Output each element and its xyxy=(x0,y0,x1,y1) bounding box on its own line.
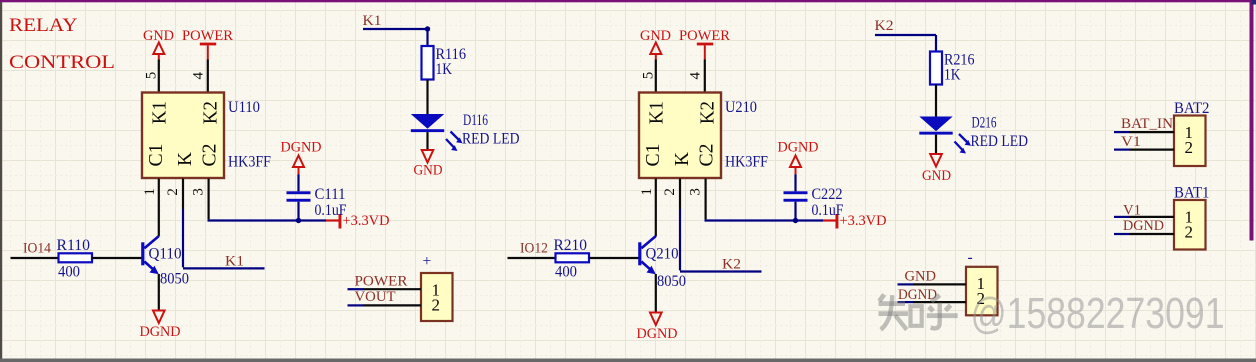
power port GND (below D116) xyxy=(414,150,443,179)
pin 4 wire xyxy=(704,60,706,93)
svg-text:R210: R210 xyxy=(554,237,588,254)
svg-text:Q210: Q210 xyxy=(646,246,679,263)
svg-text:GND: GND xyxy=(414,163,443,179)
svg-text:400: 400 xyxy=(555,264,577,281)
wire D116 to GND xyxy=(426,132,428,150)
watermark zhihu glyphs xyxy=(879,295,958,330)
svg-text:+3.3VD: +3.3VD xyxy=(840,213,887,229)
svg-text:DGND: DGND xyxy=(637,326,678,342)
power port GND (pin 5 of U110) xyxy=(143,28,174,60)
relay U110 body xyxy=(142,93,224,179)
power port DGND (below Q210) xyxy=(637,313,678,343)
svg-text:+: + xyxy=(423,253,432,270)
connector body xyxy=(421,273,453,321)
svg-text:4: 4 xyxy=(688,71,704,79)
power port GND (pin 5 of U210) xyxy=(640,28,671,60)
svg-text:GND: GND xyxy=(905,268,937,284)
svg-text:C1: C1 xyxy=(643,144,664,167)
svg-text:DGND: DGND xyxy=(140,324,181,340)
svg-text:K: K xyxy=(672,152,693,166)
wire R110 to Q110 base xyxy=(92,257,142,259)
power port DGND (below Q110) xyxy=(140,311,181,341)
pin 3 wire xyxy=(208,179,210,220)
svg-text:HK3FF: HK3FF xyxy=(725,154,768,171)
connector body xyxy=(1174,200,1206,250)
power port DGND (above C111) xyxy=(281,140,322,175)
svg-text:RED LED: RED LED xyxy=(971,133,1029,150)
svg-text:0.1uF: 0.1uF xyxy=(812,202,844,219)
wire D216 to GND xyxy=(935,135,937,154)
svg-text:C2: C2 xyxy=(199,144,220,167)
svg-text:4: 4 xyxy=(191,71,207,79)
wire IO12 to R210 xyxy=(508,257,556,259)
wire R116 to D116 xyxy=(426,80,428,116)
wire net V1 xyxy=(1114,149,1130,151)
svg-text:2: 2 xyxy=(1185,138,1194,157)
resistor R216 xyxy=(930,52,942,85)
power port GND (below D216) xyxy=(922,154,951,184)
svg-text:2: 2 xyxy=(662,188,678,196)
svg-text:C111: C111 xyxy=(315,186,346,203)
svg-text:K2: K2 xyxy=(201,101,222,124)
LED emission arrows xyxy=(955,134,972,154)
LED emission arrows xyxy=(446,132,463,152)
power port POWER (pin 4 of U110) xyxy=(182,28,233,60)
resistor R110 xyxy=(59,253,93,262)
svg-text:K2: K2 xyxy=(698,101,719,124)
power port +3.3VD xyxy=(326,213,390,229)
svg-text:8050: 8050 xyxy=(657,273,686,290)
connector body xyxy=(1174,116,1206,167)
junction xyxy=(425,26,430,31)
wire pin 3 to +3.3VD rail xyxy=(208,219,327,221)
power port +3.3VD xyxy=(823,213,887,229)
svg-text:2: 2 xyxy=(432,295,441,314)
svg-text:-: - xyxy=(968,249,973,266)
wire net DGND xyxy=(1114,233,1130,235)
power port DGND (above C222) xyxy=(778,140,819,175)
resistor R116 xyxy=(422,46,434,80)
svg-text:U110: U110 xyxy=(228,99,260,116)
transistor Q110 xyxy=(141,236,159,274)
svg-text:POWER: POWER xyxy=(679,28,730,44)
wire DGND to C222 xyxy=(794,175,796,192)
svg-text:K1: K1 xyxy=(646,101,667,124)
svg-text:1K: 1K xyxy=(436,61,453,78)
wire C222 to rail xyxy=(794,202,796,221)
svg-text:IO12: IO12 xyxy=(520,241,548,257)
svg-text:POWER: POWER xyxy=(182,28,233,44)
wire pin 2 to net K1 xyxy=(182,209,184,267)
connector body xyxy=(966,267,998,316)
svg-text:3: 3 xyxy=(688,188,704,196)
pin 5 wire xyxy=(655,60,657,93)
wire net V1 xyxy=(1114,216,1130,218)
svg-text:K1: K1 xyxy=(149,101,170,124)
svg-text:K: K xyxy=(175,152,196,166)
svg-text:DGND: DGND xyxy=(281,140,322,156)
svg-text:K1: K1 xyxy=(363,13,382,29)
svg-text:R110: R110 xyxy=(57,237,91,254)
svg-text:C222: C222 xyxy=(812,186,843,203)
pin 3 wire xyxy=(704,179,706,220)
junction at C111 xyxy=(296,218,301,223)
wire IO14 to R110 xyxy=(11,257,59,259)
wire Q110 emitter to DGND xyxy=(158,274,160,311)
svg-text:K2: K2 xyxy=(875,18,894,34)
wire pin 2 to net K2 xyxy=(679,209,681,270)
wire net K1 xyxy=(363,28,428,30)
svg-text:3: 3 xyxy=(191,188,207,196)
svg-text:D216: D216 xyxy=(972,114,997,131)
resistor R210 xyxy=(556,253,590,262)
wire R216 to D216 xyxy=(935,85,937,118)
pin 5 wire xyxy=(158,60,160,93)
wire Q210 emitter to DGND xyxy=(655,274,657,313)
svg-text:U210: U210 xyxy=(725,99,757,116)
svg-text:400: 400 xyxy=(58,264,80,281)
svg-text:BAT_IN: BAT_IN xyxy=(1121,116,1174,132)
svg-text:1K: 1K xyxy=(944,67,961,84)
svg-text:HK3FF: HK3FF xyxy=(228,154,271,171)
svg-text:1: 1 xyxy=(142,188,158,196)
svg-text:RED LED: RED LED xyxy=(462,131,520,148)
svg-text:Q110: Q110 xyxy=(149,246,182,263)
wire net DGND xyxy=(898,301,914,303)
pin 4 wire xyxy=(207,60,209,93)
wire net GND xyxy=(898,283,914,285)
pin 2 wire xyxy=(182,179,184,210)
svg-text:1: 1 xyxy=(639,188,655,196)
svg-text:8050: 8050 xyxy=(160,271,189,288)
LED D216 xyxy=(919,117,952,135)
wire DGND to C111 xyxy=(297,175,299,192)
transistor Q210 xyxy=(638,236,656,274)
capacitor C222 xyxy=(784,191,808,201)
wire pin 3 to +3.3VD rail xyxy=(705,219,824,221)
wire net VOUT xyxy=(348,304,364,306)
svg-text:@15882273091: @15882273091 xyxy=(971,290,1225,338)
wire net BAT_IN xyxy=(1114,131,1130,133)
wire C111 to rail xyxy=(297,202,299,221)
svg-text:V1: V1 xyxy=(1121,134,1141,150)
svg-text:0.1uF: 0.1uF xyxy=(315,202,347,219)
svg-text:2: 2 xyxy=(165,188,181,196)
svg-text:DGND: DGND xyxy=(1123,218,1164,234)
pin 1 wire xyxy=(158,179,160,237)
svg-text:K1: K1 xyxy=(225,254,244,270)
svg-text:VOUT: VOUT xyxy=(355,289,396,305)
svg-text:IO14: IO14 xyxy=(23,241,52,257)
wire net POWER xyxy=(348,288,364,290)
svg-text:5: 5 xyxy=(143,72,159,80)
svg-text:CONTROL: CONTROL xyxy=(9,52,115,73)
svg-text:+3.3VD: +3.3VD xyxy=(343,213,390,229)
wire net K2 xyxy=(875,34,936,36)
LED D116 xyxy=(411,114,444,132)
capacitor C111 xyxy=(287,191,311,201)
junction at C222 xyxy=(793,218,798,223)
svg-text:2: 2 xyxy=(1185,222,1194,241)
wire R210 to Q210 base xyxy=(589,257,639,259)
relay U210 body xyxy=(639,93,721,179)
svg-text:K2: K2 xyxy=(722,257,741,273)
svg-text:C2: C2 xyxy=(696,144,717,167)
title text RELAY CONTROL xyxy=(9,15,115,73)
svg-text:GND: GND xyxy=(922,168,951,184)
svg-text:D116: D116 xyxy=(463,112,488,129)
svg-text:POWER: POWER xyxy=(355,273,408,289)
svg-text:RELAY: RELAY xyxy=(9,15,78,36)
svg-text:5: 5 xyxy=(640,72,656,80)
pin 1 wire xyxy=(655,179,657,237)
pin 2 wire xyxy=(679,179,681,210)
svg-text:DGND: DGND xyxy=(778,140,819,156)
power port POWER (pin 4 of U210) xyxy=(679,28,730,60)
svg-text:C1: C1 xyxy=(146,144,167,167)
